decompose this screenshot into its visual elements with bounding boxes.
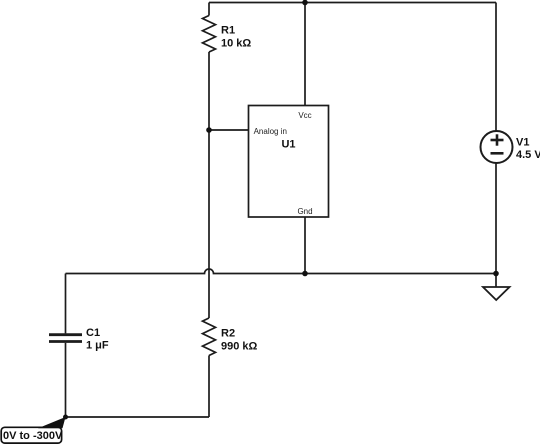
svg-text:Analog in: Analog in bbox=[254, 127, 287, 136]
svg-text:990 kΩ: 990 kΩ bbox=[221, 340, 258, 352]
svg-text:4.5 V: 4.5 V bbox=[516, 149, 540, 161]
svg-text:C1: C1 bbox=[86, 327, 100, 339]
svg-text:0V to -300V: 0V to -300V bbox=[3, 430, 63, 442]
svg-text:1 μF: 1 μF bbox=[86, 340, 109, 352]
svg-text:U1: U1 bbox=[281, 139, 295, 151]
svg-text:R2: R2 bbox=[221, 328, 235, 340]
svg-text:10 kΩ: 10 kΩ bbox=[221, 37, 251, 49]
svg-text:V1: V1 bbox=[516, 137, 529, 149]
svg-text:Gnd: Gnd bbox=[297, 207, 312, 216]
svg-text:Vcc: Vcc bbox=[298, 111, 311, 120]
svg-text:R1: R1 bbox=[221, 25, 235, 37]
